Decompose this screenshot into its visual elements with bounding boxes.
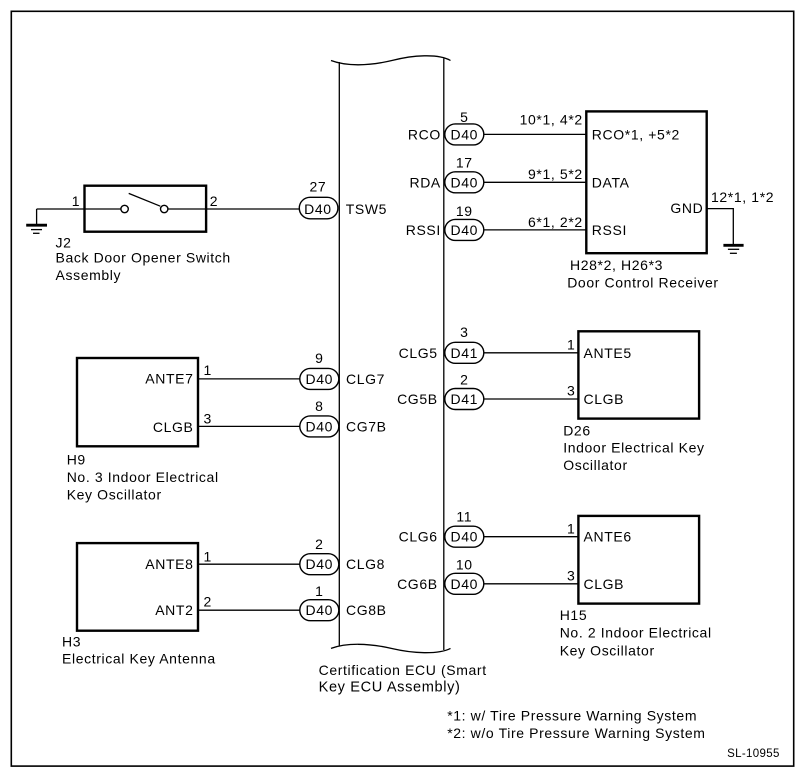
svg-text:9: 9 <box>315 350 323 366</box>
svg-text:Key Oscillator: Key Oscillator <box>560 643 655 659</box>
svg-text:Key Oscillator: Key Oscillator <box>67 487 162 503</box>
svg-text:2: 2 <box>315 536 323 552</box>
svg-text:3: 3 <box>567 383 575 399</box>
svg-text:No. 3 Indoor Electrical: No. 3 Indoor Electrical <box>67 469 219 485</box>
svg-text:SL-10955: SL-10955 <box>727 748 780 760</box>
svg-text:CLG5: CLG5 <box>399 345 438 361</box>
svg-text:D40: D40 <box>451 529 479 545</box>
svg-text:D26: D26 <box>563 422 591 438</box>
svg-text:DATA: DATA <box>592 174 630 190</box>
svg-text:8: 8 <box>315 398 323 414</box>
svg-text:CG5B: CG5B <box>397 391 438 407</box>
svg-text:10*1, 4*2: 10*1, 4*2 <box>520 111 583 127</box>
svg-text:1: 1 <box>204 549 212 565</box>
svg-text:D40: D40 <box>451 576 479 592</box>
svg-text:CG6B: CG6B <box>397 576 438 592</box>
svg-text:27: 27 <box>309 178 326 194</box>
svg-text:RCO: RCO <box>408 127 441 143</box>
svg-text:10: 10 <box>456 556 473 572</box>
svg-text:Assembly: Assembly <box>56 267 122 283</box>
svg-text:D40: D40 <box>306 371 334 387</box>
svg-text:D40: D40 <box>306 602 334 618</box>
svg-text:3: 3 <box>460 324 468 340</box>
svg-text:3: 3 <box>567 568 575 584</box>
svg-text:D40: D40 <box>451 222 479 238</box>
svg-text:No. 2 Indoor Electrical: No. 2 Indoor Electrical <box>560 625 712 641</box>
svg-text:TSW5: TSW5 <box>346 201 387 217</box>
svg-text:Back Door Opener Switch: Back Door Opener Switch <box>56 249 231 265</box>
svg-text:CG7B: CG7B <box>346 418 387 434</box>
svg-text:H3: H3 <box>62 634 81 650</box>
svg-text:2: 2 <box>460 371 468 387</box>
svg-text:CLG6: CLG6 <box>399 529 438 545</box>
svg-text:*1: w/ Tire Pressure Warning S: *1: w/ Tire Pressure Warning System <box>447 708 697 724</box>
svg-text:RSSI: RSSI <box>592 222 627 238</box>
svg-text:Key ECU Assembly): Key ECU Assembly) <box>319 679 461 695</box>
svg-text:19: 19 <box>456 203 473 219</box>
svg-text:5: 5 <box>460 109 468 125</box>
svg-text:RSSI: RSSI <box>406 222 441 238</box>
svg-text:H15: H15 <box>560 607 588 623</box>
svg-text:6*1, 2*2: 6*1, 2*2 <box>528 214 583 230</box>
svg-text:1: 1 <box>567 337 575 353</box>
svg-text:D41: D41 <box>451 391 479 407</box>
svg-text:D40: D40 <box>306 556 334 572</box>
svg-text:J2: J2 <box>56 234 72 250</box>
svg-text:2: 2 <box>204 593 212 609</box>
svg-text:1: 1 <box>315 583 323 599</box>
svg-text:CLGB: CLGB <box>584 576 625 592</box>
svg-text:D41: D41 <box>451 345 479 361</box>
svg-text:Certification ECU (Smart: Certification ECU (Smart <box>319 662 487 678</box>
svg-text:*2: w/o Tire Pressure Warning: *2: w/o Tire Pressure Warning System <box>447 725 705 741</box>
svg-text:Electrical Key Antenna: Electrical Key Antenna <box>62 650 216 666</box>
svg-text:9*1, 5*2: 9*1, 5*2 <box>528 166 583 182</box>
svg-text:17: 17 <box>456 155 473 171</box>
svg-text:ANTE6: ANTE6 <box>584 529 632 545</box>
svg-text:D40: D40 <box>451 174 479 190</box>
svg-text:CLG7: CLG7 <box>346 371 385 387</box>
svg-text:ANTE8: ANTE8 <box>145 556 193 572</box>
svg-text:ANTE7: ANTE7 <box>145 371 193 387</box>
svg-text:CG8B: CG8B <box>346 602 387 618</box>
svg-text:CLGB: CLGB <box>584 391 625 407</box>
svg-text:Door Control Receiver: Door Control Receiver <box>567 274 719 290</box>
svg-text:GND: GND <box>670 200 703 216</box>
svg-text:RCO*1, +5*2: RCO*1, +5*2 <box>592 126 680 142</box>
svg-text:Indoor Electrical Key: Indoor Electrical Key <box>563 440 704 456</box>
svg-text:D40: D40 <box>451 126 479 142</box>
svg-text:2: 2 <box>210 193 218 209</box>
svg-text:1: 1 <box>72 193 80 209</box>
svg-text:ANT2: ANT2 <box>155 602 193 618</box>
svg-text:D40: D40 <box>306 418 334 434</box>
svg-text:1: 1 <box>567 521 575 537</box>
svg-text:CLG8: CLG8 <box>346 556 385 572</box>
svg-text:1: 1 <box>204 362 212 378</box>
svg-text:CLGB: CLGB <box>153 419 194 435</box>
svg-text:ANTE5: ANTE5 <box>584 345 632 361</box>
svg-text:3: 3 <box>204 411 212 427</box>
svg-text:H9: H9 <box>67 452 86 468</box>
svg-text:Oscillator: Oscillator <box>563 457 628 473</box>
svg-text:H28*2, H26*3: H28*2, H26*3 <box>570 257 663 273</box>
svg-text:D40: D40 <box>304 201 332 217</box>
svg-text:12*1, 1*2: 12*1, 1*2 <box>711 189 774 205</box>
svg-text:11: 11 <box>456 509 472 525</box>
svg-text:RDA: RDA <box>409 174 440 190</box>
